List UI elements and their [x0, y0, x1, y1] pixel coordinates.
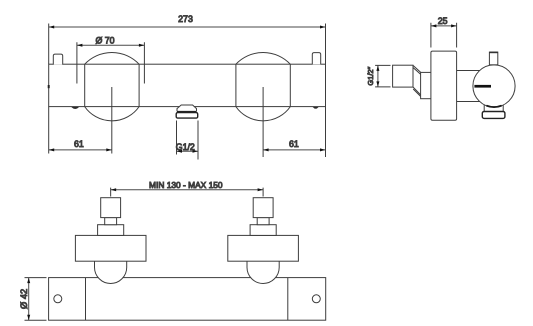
knob left top arc — [85, 52, 139, 64]
svg-text:MIN 130 - MAX 150: MIN 130 - MAX 150 — [149, 180, 223, 190]
screw hole right — [312, 295, 320, 303]
outlet stub nut — [176, 113, 198, 119]
bottom bar end cap right — [287, 278, 289, 321]
bottom bar end cap left — [85, 278, 87, 321]
svg-text:273: 273 — [178, 14, 193, 24]
dim G1/2in line — [377, 65, 379, 87]
knob right centerline — [262, 87, 264, 157]
extension line left (273/61) — [48, 24, 50, 154]
knob left tangent lines — [85, 64, 139, 106]
dim 25 arrows — [431, 24, 457, 27]
knob right tangent lines — [236, 64, 290, 106]
svg-text:61: 61 — [289, 139, 299, 149]
inlet nut left — [75, 235, 146, 261]
inlet neck left — [105, 218, 117, 225]
svg-text:61: 61 — [74, 139, 84, 149]
outlet stub band — [177, 111, 197, 113]
knob circle bottom arc thick — [486, 106, 501, 107]
inlet nut right — [228, 235, 299, 261]
dim G1/2 ext lines — [177, 121, 199, 160]
outlet nut (side) — [482, 112, 505, 119]
temperature button stub — [489, 52, 497, 65]
svg-text:G1/2″: G1/2″ — [366, 66, 375, 85]
inlet square right — [253, 198, 273, 218]
inlet hidden tick — [48, 85, 50, 88]
inlet cone chamfer bottom — [413, 87, 421, 96]
dim 61 right line — [263, 149, 325, 151]
lens mark left — [71, 107, 79, 109]
screw hole left — [54, 295, 62, 303]
outlet stub G1/2 cap — [177, 105, 197, 111]
inlet flange right — [250, 225, 276, 236]
dim 273 arrows — [49, 26, 326, 29]
dim 61 left line — [49, 149, 112, 151]
knob left centerline — [111, 87, 113, 154]
extension line right (273/61) — [325, 24, 327, 158]
inlet flange left — [98, 225, 124, 236]
mounting body behind plate — [452, 71, 480, 102]
dim MIN/MAX line — [111, 189, 263, 191]
knob right top arc — [236, 52, 290, 64]
svg-text:25: 25 — [438, 16, 448, 26]
dim dia42 line — [28, 278, 30, 321]
svg-text:G1/2: G1/2 — [176, 142, 195, 152]
dim G1/2 line — [177, 150, 199, 152]
inlet union body cylinder — [421, 72, 432, 98]
inlet bell right — [247, 261, 279, 283]
dim 61 left arrows — [49, 148, 112, 151]
knob left bottom arc — [85, 107, 139, 121]
dim G1/2in ext lines — [375, 65, 390, 87]
dim dia42 arrows — [27, 278, 30, 321]
dim dia70 ext lines — [77, 42, 144, 83]
inlet nipple G1/2 — [393, 65, 413, 87]
stub cap edge — [489, 51, 497, 53]
body bar — [49, 64, 326, 106]
handle knob circle (side) — [473, 65, 515, 107]
dim dia42 ext lines — [25, 278, 47, 321]
dim 25 ext lines — [431, 23, 457, 48]
lens mark right — [313, 107, 319, 109]
dim 273 line — [49, 26, 326, 28]
inlet cone chamfer top — [413, 65, 421, 74]
bottom bar — [49, 278, 326, 321]
outlet neck (side) — [484, 103, 503, 112]
knob right bottom arc — [236, 107, 290, 121]
svg-text:Ø 70: Ø 70 — [95, 35, 114, 45]
plug right — [312, 53, 320, 65]
svg-text:Ø 42: Ø 42 — [19, 289, 29, 309]
dim MIN/MAX arrows — [111, 188, 263, 191]
handle lever dash — [474, 85, 491, 88]
inlet neck right — [257, 218, 269, 225]
dim MIN/MAX ext lines — [111, 188, 263, 197]
dim dia70 line — [77, 44, 144, 46]
dim 61 right arrows — [263, 148, 325, 151]
dim dia70 arrows — [77, 44, 144, 47]
dim G1/2in arrows — [376, 65, 379, 87]
dim G1/2 arrows — [177, 150, 199, 153]
inlet bell left — [95, 261, 127, 283]
wall plate — [431, 51, 457, 120]
plug left — [53, 54, 62, 65]
dim 25 line — [431, 25, 457, 27]
inlet square left — [101, 198, 121, 218]
